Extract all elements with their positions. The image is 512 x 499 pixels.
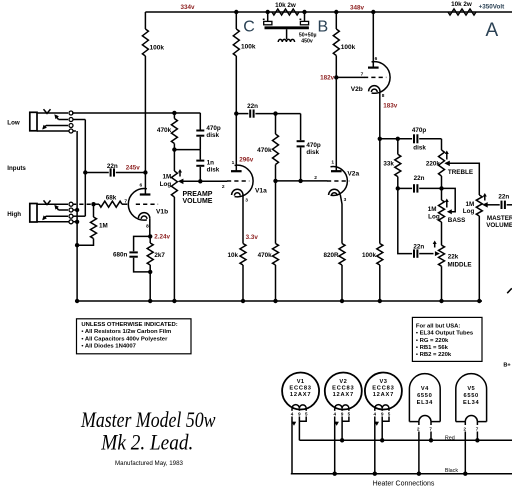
- svg-text:8: 8: [146, 223, 149, 229]
- svg-text:68k: 68k: [106, 195, 117, 202]
- svg-text:A: A: [485, 20, 498, 41]
- resistor 1M (High input grid leak): [77, 204, 108, 245]
- node B: [317, 19, 328, 36]
- pin 2 V2a: [314, 175, 317, 181]
- svg-text:296v: 296v: [239, 156, 254, 163]
- node 33k bottom: [396, 186, 400, 190]
- node ground bus 470k leak: [273, 299, 277, 303]
- svg-text:100k: 100k: [241, 44, 256, 51]
- svg-text:Log: Log: [428, 213, 440, 220]
- svg-text:2: 2: [314, 175, 317, 181]
- svg-text:For all but USA:: For all but USA:: [416, 323, 461, 329]
- node 470k top: [172, 111, 176, 115]
- svg-text:BASS: BASS: [448, 217, 466, 224]
- wire V3 pin9 to red bus: [381, 417, 383, 441]
- node 470k2 top: [273, 111, 277, 115]
- wire ground bus: [77, 300, 482, 302]
- svg-text:VOLUME: VOLUME: [486, 222, 512, 229]
- jack Low (sleeve body): [30, 112, 37, 131]
- triode V1b: [128, 189, 168, 221]
- pin 9 V3: [381, 408, 384, 416]
- label Manufactured May 1983: [115, 460, 184, 467]
- svg-text:470p: 470p: [306, 142, 321, 149]
- svg-text:1: 1: [331, 159, 334, 165]
- svg-text:disk: disk: [413, 144, 426, 151]
- wire V1 pins 9+5 tie: [299, 417, 306, 422]
- pin 7 V2b: [361, 71, 364, 77]
- svg-text:Log: Log: [160, 181, 172, 188]
- terminal Low contact: [69, 124, 73, 128]
- svg-text:• All Diodes 1N4007: • All Diodes 1N4007: [81, 344, 136, 350]
- svg-text:33k: 33k: [383, 160, 394, 167]
- pin 9 V1: [298, 408, 301, 416]
- svg-text:B: B: [317, 19, 328, 36]
- jack High switch arrow 2: [42, 215, 85, 220]
- triode V2a: [327, 167, 359, 196]
- node C: [243, 19, 255, 36]
- node rail junction above V2a load: [334, 10, 338, 14]
- capacitor 22n (V1a coupling): [236, 103, 300, 118]
- terminal High sleeve: [69, 220, 73, 224]
- triode V2b: [351, 62, 390, 94]
- pin 3 V2a: [344, 197, 347, 203]
- wire ground return column: [76, 131, 78, 301]
- terminal High tip: [69, 202, 73, 206]
- wire top B+ rail 334v/348v: [145, 11, 512, 13]
- label High: [7, 211, 21, 218]
- svg-text:Heater Connections: Heater Connections: [373, 480, 435, 487]
- jack High sleeve wire: [37, 221, 76, 223]
- resistor 10k 2w (rail dropping, left): [272, 2, 299, 15]
- capacitor 470p disk (bright 2): [297, 114, 321, 181]
- svg-text:Manufactured May, 1983: Manufactured May, 1983: [115, 460, 184, 467]
- svg-text:22n: 22n: [247, 103, 258, 110]
- pin 8 V2b: [382, 93, 385, 99]
- resistor 100k (V1b plate load): [142, 12, 164, 194]
- node ground bus 10k: [241, 299, 245, 303]
- svg-text:2k7: 2k7: [154, 252, 165, 259]
- svg-text:100k: 100k: [362, 252, 377, 259]
- node rail junction filter cap right: [302, 10, 306, 14]
- wire V2b cathode: [379, 91, 381, 138]
- svg-text:470p: 470p: [412, 127, 427, 134]
- wire V4 pin2 to black bus: [418, 432, 420, 474]
- svg-text:6: 6: [375, 56, 378, 62]
- node grid junction 68k/1M: [91, 202, 95, 206]
- wire High tip dashed to grid node: [72, 203, 94, 205]
- svg-text:10k 2w: 10k 2w: [275, 2, 296, 9]
- node 1n bottom: [198, 179, 202, 183]
- node rail junction above V2b plate: [371, 10, 375, 14]
- label 296v: [239, 156, 254, 163]
- wire V1b output network top: [72, 112, 200, 114]
- node tone stack top: [378, 137, 382, 141]
- pin 7 V4: [429, 422, 432, 432]
- svg-text:12AX7: 12AX7: [373, 392, 394, 398]
- node red bus V4-7: [429, 438, 433, 442]
- note box for all but USA: [412, 317, 482, 361]
- svg-text:12AX7: 12AX7: [290, 392, 311, 398]
- svg-text:100k: 100k: [341, 44, 356, 51]
- svg-text:220k: 220k: [426, 160, 441, 167]
- node high ring ground: [75, 208, 79, 212]
- svg-text:Red: Red: [445, 436, 455, 442]
- resistor 10k (V1a cathode): [227, 244, 246, 302]
- wire V2 pin4 to black bus: [334, 417, 339, 474]
- capacitor 22n (middle): [413, 241, 440, 258]
- svg-text:• RG = 220k: • RG = 220k: [416, 338, 449, 344]
- svg-text:8: 8: [382, 93, 385, 99]
- node high sleeve ground: [75, 220, 79, 224]
- pin 4 V2: [333, 408, 336, 416]
- node black bus V5-2: [463, 472, 467, 476]
- svg-text:7: 7: [124, 198, 127, 204]
- svg-text:7: 7: [361, 71, 364, 77]
- node 470k2 bottom: [273, 179, 277, 183]
- node ground bus middle pot: [439, 299, 443, 303]
- terminal Low ring: [69, 118, 73, 122]
- svg-text:• RB2 = 220k: • RB2 = 220k: [416, 352, 452, 358]
- jack Low switch arrow 1: [54, 114, 85, 119]
- svg-text:12AX7: 12AX7: [333, 392, 354, 398]
- node black bus V3-4: [373, 472, 377, 476]
- resistor 33k (slope): [383, 139, 400, 189]
- svg-text:EL34: EL34: [417, 400, 434, 406]
- label Red: [445, 436, 455, 442]
- jack High tip contact: [37, 200, 68, 204]
- node rail junction above V1b load: [234, 10, 238, 14]
- svg-text:470k: 470k: [257, 147, 272, 154]
- svg-text:470k: 470k: [157, 127, 172, 134]
- svg-text:ECC83: ECC83: [332, 386, 354, 392]
- node ground bus 820R: [340, 299, 344, 303]
- note box unless otherwise indicated: [77, 319, 192, 354]
- node red bus V3-9: [380, 438, 384, 442]
- svg-text:22n: 22n: [107, 163, 118, 170]
- pin 5 V2: [348, 408, 351, 416]
- svg-text:6: 6: [139, 183, 142, 189]
- wire V2a grid: [276, 180, 328, 182]
- svg-text:• EL34 Output Tubes: • EL34 Output Tubes: [416, 331, 474, 337]
- wire V2 pin9 to red bus: [341, 417, 343, 441]
- pin 2 V1a: [222, 184, 225, 190]
- wire red heater bus: [299, 439, 512, 441]
- svg-text:334v: 334v: [180, 4, 195, 11]
- node black bus V4-2: [417, 472, 421, 476]
- svg-text:22k: 22k: [448, 254, 459, 261]
- node ground bus master pot: [477, 299, 481, 303]
- svg-text:V3: V3: [380, 379, 388, 385]
- wire V3 pin4 to black bus: [374, 417, 379, 474]
- potentiometer 1M Log PREAMP VOLUME: [160, 169, 213, 205]
- resistor 10k 2w (rail dropping, right): [448, 1, 476, 15]
- node V1b plate 245v: [143, 170, 147, 174]
- label 334v: [180, 4, 195, 11]
- tube V1 ECC83 12AX7: [282, 373, 319, 410]
- label Inputs: [7, 165, 26, 172]
- node 2k7/680n bottom: [148, 270, 152, 274]
- capacitor 50+50u 450v (filter): [263, 12, 317, 45]
- wire middle tap: [398, 188, 412, 253]
- capacitor 470p disk (bright): [196, 113, 221, 150]
- svg-text:+350Volt: +350Volt: [479, 4, 506, 11]
- label Low: [7, 120, 20, 127]
- label 183v: [383, 103, 398, 110]
- svg-text:6550: 6550: [463, 393, 478, 399]
- label 245v: [126, 165, 141, 172]
- svg-text:MASTER: MASTER: [487, 215, 512, 222]
- label 182v: [320, 75, 335, 82]
- pin 3 V1a: [245, 198, 248, 204]
- svg-text:C: C: [243, 19, 255, 36]
- svg-text:22n: 22n: [413, 244, 424, 251]
- pin 8 V1b: [146, 223, 149, 229]
- node A: [485, 20, 498, 41]
- svg-text:1M: 1M: [99, 223, 108, 230]
- svg-text:TREBLE: TREBLE: [448, 169, 473, 176]
- tube V4 6550 EL34: [409, 374, 440, 422]
- wire V1 pin9 to red bus: [298, 417, 300, 441]
- node red bus V5-7: [475, 438, 479, 442]
- svg-text:2: 2: [222, 184, 225, 190]
- svg-text:MIDDLE: MIDDLE: [448, 262, 472, 269]
- svg-text:disk: disk: [306, 149, 319, 156]
- svg-text:10k: 10k: [227, 252, 238, 259]
- wire stub top right: [507, 288, 512, 293]
- node rail junction filter cap left: [266, 10, 270, 14]
- svg-text:Low: Low: [7, 120, 20, 127]
- node 33k top: [396, 137, 400, 141]
- wire V1a cathode: [242, 195, 244, 244]
- pin 4 V1: [291, 408, 294, 416]
- wire black heater bus: [291, 473, 512, 475]
- resistor 470k (mixer): [157, 113, 178, 171]
- svg-text:Inputs: Inputs: [7, 165, 26, 172]
- node V2a plate / V2b grid: [334, 75, 338, 79]
- svg-text:High: High: [7, 211, 21, 218]
- wire V4 pin7 to red bus: [430, 432, 432, 441]
- node 1M ground: [75, 243, 79, 247]
- wire V5 pin7 to red bus: [476, 432, 478, 441]
- wire V2b grid: [336, 76, 364, 78]
- wire V1b cathode: [149, 218, 151, 236]
- node 470k bottom: [172, 147, 176, 151]
- jack Low switch arrow 2: [42, 125, 68, 130]
- pin 9 V2: [341, 408, 344, 416]
- node V1b cathode 2.24v: [148, 234, 170, 241]
- capacitor 22n (bass): [398, 175, 455, 214]
- pin 5 V3: [388, 408, 391, 416]
- svg-text:V2: V2: [339, 379, 347, 385]
- node 22n left: [83, 170, 87, 174]
- svg-text:820R: 820R: [323, 252, 339, 259]
- potentiometer 1M Log MASTER VOLUME: [463, 193, 512, 301]
- wire V1 pin4 to black bus: [291, 417, 296, 474]
- wiper preamp volume: [178, 179, 227, 185]
- svg-text:B+: B+: [503, 362, 511, 368]
- svg-text:V5: V5: [467, 386, 475, 392]
- node ground bus 2k7: [148, 299, 152, 303]
- jack Low tip contact: [37, 109, 68, 113]
- resistor 470k (V2a grid leak): [258, 181, 279, 301]
- pin 2 V5: [463, 422, 466, 432]
- resistor 100k (V2a plate load): [333, 12, 355, 171]
- wire V2a cathode: [340, 195, 342, 244]
- title Mk 2 Lead: [100, 430, 193, 455]
- terminal High ring: [69, 208, 73, 212]
- capacitor 680n (cathode bypass): [113, 236, 150, 272]
- terminal Low tip: [69, 111, 73, 115]
- potentiometer 1M Log BASS: [428, 188, 466, 245]
- resistor 68k (grid stopper): [94, 195, 128, 208]
- potentiometer 220k TREBLE: [426, 139, 473, 189]
- pin 2 V4: [417, 422, 420, 432]
- svg-text:V2a: V2a: [347, 171, 359, 178]
- svg-text:disk: disk: [207, 166, 220, 173]
- pin 4 V3: [374, 408, 377, 416]
- tube V2 ECC83 12AX7: [325, 373, 362, 410]
- resistor 820R (V2a cathode): [323, 244, 345, 302]
- wire V3 pins 9+5 tie: [382, 417, 389, 422]
- pin 1 V2a: [331, 159, 334, 165]
- wire low input signal column: [84, 120, 86, 217]
- svg-text:V1: V1: [297, 379, 305, 385]
- svg-text:ECC83: ECC83: [372, 386, 394, 392]
- svg-text:450v: 450v: [301, 39, 313, 45]
- potentiometer 22k MIDDLE: [439, 245, 472, 301]
- svg-text:22n: 22n: [414, 175, 425, 182]
- node treble bottom: [439, 186, 443, 190]
- resistor 470k (series mixer 2): [257, 114, 278, 181]
- capacitor 22n (input coupling): [85, 163, 145, 177]
- tube V3 ECC83 12AX7: [365, 373, 402, 410]
- label +350Volt: [479, 4, 506, 11]
- jack Low sleeve wire: [37, 130, 76, 132]
- pin 6 V1b: [139, 183, 142, 189]
- svg-text:6550: 6550: [417, 393, 432, 399]
- node red bus V2-9: [340, 438, 344, 442]
- resistor 100k (V1a plate load): [233, 12, 256, 171]
- label Black: [445, 468, 458, 474]
- pin 7 V1b: [124, 198, 127, 204]
- label Heater Connections: [373, 480, 435, 487]
- ground (filter cap): [278, 39, 294, 42]
- svg-text:182v: 182v: [320, 75, 335, 82]
- label 348v: [350, 4, 365, 11]
- svg-text:• All Capacitors 400v Polyeste: • All Capacitors 400v Polyester: [81, 337, 168, 343]
- svg-text:EL34: EL34: [463, 400, 480, 406]
- pin 6 V2b: [375, 56, 378, 62]
- node black bus V2-4: [333, 472, 337, 476]
- capacitor 470p disk (treble): [380, 127, 442, 151]
- svg-text:1: 1: [232, 160, 235, 166]
- svg-text:10k 2w: 10k 2w: [451, 1, 472, 8]
- wiper master volume / capacitor 22n output: [482, 193, 512, 209]
- triode V1a: [227, 165, 267, 197]
- svg-text:3: 3: [245, 198, 248, 204]
- wiper treble to master: [444, 161, 479, 195]
- label B+: [503, 362, 511, 368]
- resistor 2k7 (V1b cathode): [147, 236, 165, 301]
- node ground bus jacks: [75, 299, 79, 303]
- svg-text:470p: 470p: [206, 125, 221, 132]
- terminal Low sleeve: [69, 129, 73, 133]
- svg-text:Log: Log: [463, 208, 475, 215]
- svg-text:1M: 1M: [466, 201, 475, 208]
- svg-text:ECC83: ECC83: [289, 386, 311, 392]
- pin 7 V5: [476, 422, 479, 432]
- capacitor 1n disk: [196, 150, 219, 182]
- svg-text:V1a: V1a: [255, 187, 267, 194]
- terminal High contact: [69, 214, 73, 218]
- svg-text:Master Model 50w: Master Model 50w: [80, 407, 216, 432]
- svg-text:3: 3: [344, 197, 347, 203]
- svg-text:1M: 1M: [162, 174, 171, 181]
- jack High (sleeve body): [30, 204, 37, 223]
- svg-text:Black: Black: [445, 468, 458, 474]
- svg-text:1n: 1n: [207, 159, 215, 166]
- svg-text:V2b: V2b: [351, 86, 363, 93]
- node 470p2 bottom: [298, 179, 302, 183]
- title Master Model 50w: [80, 407, 216, 432]
- svg-text:348v: 348v: [350, 4, 365, 11]
- wire V2 pins 9+5 tie: [342, 417, 349, 422]
- svg-text:470k: 470k: [258, 252, 273, 259]
- node ground bus 100k: [378, 299, 382, 303]
- pin 5 V1: [305, 408, 308, 416]
- jack High switch arrow 1: [54, 205, 76, 210]
- svg-text:680n: 680n: [113, 252, 128, 259]
- node V1a plate: [234, 111, 238, 115]
- wire preamp volume to ground: [173, 197, 175, 301]
- svg-text:100k: 100k: [150, 44, 165, 51]
- svg-text:disk: disk: [206, 132, 219, 139]
- svg-text:22n: 22n: [498, 193, 509, 200]
- tube V5 6550 EL34: [456, 374, 487, 422]
- svg-text:Mk 2. Lead.: Mk 2. Lead.: [100, 430, 193, 455]
- svg-text:3.3v: 3.3v: [246, 234, 259, 241]
- svg-text:• RB1 = 56k: • RB1 = 56k: [416, 345, 449, 351]
- wire V5 pin2 to black bus: [464, 432, 466, 474]
- svg-text:• All Resistors 1/2w Carbon Fi: • All Resistors 1/2w Carbon Film: [81, 329, 171, 335]
- svg-text:1M: 1M: [428, 206, 437, 213]
- pin 1 V1a: [232, 160, 235, 166]
- node ground bus preamp pot: [172, 299, 176, 303]
- svg-text:UNLESS OTHERWISE INDICATED:: UNLESS OTHERWISE INDICATED:: [81, 322, 177, 328]
- svg-text:245v: 245v: [126, 165, 141, 172]
- svg-text:PREAMP: PREAMP: [183, 191, 213, 198]
- svg-text:183v: 183v: [383, 103, 398, 110]
- svg-text:2.24v: 2.24v: [154, 234, 170, 241]
- resistor 100k (V2b load to ground): [362, 139, 383, 301]
- svg-text:V4: V4: [421, 386, 429, 392]
- wire V2b plate: [372, 12, 374, 68]
- label 3.3v: [246, 234, 259, 241]
- svg-text:V1b: V1b: [156, 208, 168, 215]
- wire 470k bottom tie: [174, 149, 200, 151]
- svg-text:VOLUME: VOLUME: [183, 198, 213, 205]
